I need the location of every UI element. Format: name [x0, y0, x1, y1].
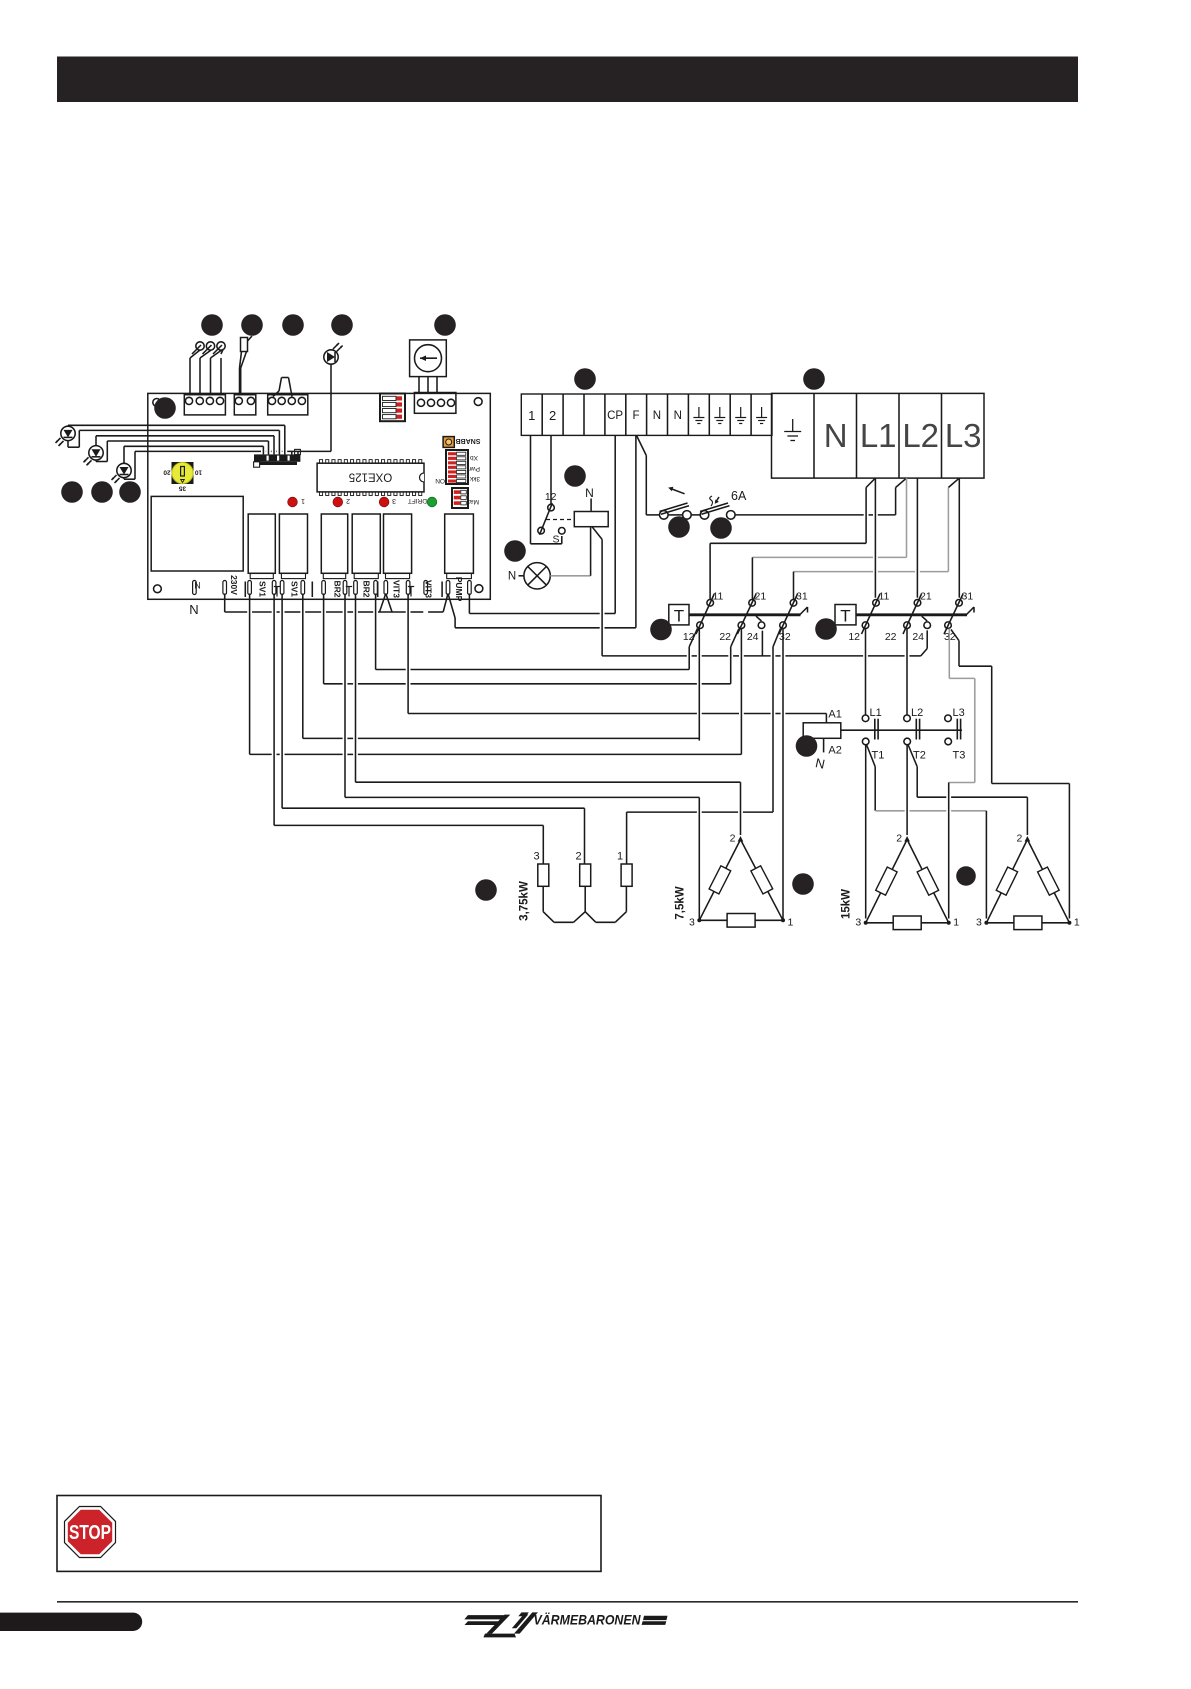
callout dot strip: [574, 368, 596, 390]
terminal block X4 (4 poles): [414, 393, 456, 414]
svg-text:N: N: [194, 580, 201, 590]
svg-text:OXE125: OXE125: [349, 471, 392, 483]
svg-text:SV1: SV1: [290, 581, 300, 597]
temperature probe above X2: [240, 336, 253, 395]
header black bar: [57, 57, 1078, 103]
LED D2 left: [84, 446, 104, 466]
warning box: [57, 1496, 601, 1572]
ribbon connector J1: [254, 449, 301, 467]
svg-text:L3: L3: [945, 417, 982, 454]
callout dot: [201, 314, 223, 336]
callout dot: [91, 481, 113, 503]
pin labels: [189, 575, 464, 617]
relay VIT3: [384, 514, 412, 573]
callout dot: [434, 314, 456, 336]
svg-text:2: 2: [1017, 833, 1023, 845]
thermostat 1 lower wires: [689, 629, 783, 921]
svg-text:11: 11: [879, 591, 890, 603]
svg-text:STOP: STOP: [69, 1522, 111, 1544]
contactor K1 poles: [841, 707, 966, 762]
svg-text:21: 21: [755, 591, 767, 603]
svg-text:230V: 230V: [229, 575, 239, 595]
svg-text:PUMP: PUMP: [454, 577, 464, 602]
IC U1 OXE125: [317, 460, 424, 496]
svg-text:1: 1: [528, 408, 535, 423]
wire pin VIT3b to 12 dogleg: [376, 594, 690, 670]
heater 7.5kW delta: [675, 833, 794, 929]
svg-text:2: 2: [896, 833, 902, 845]
svg-text:N: N: [508, 571, 516, 583]
wire terminal 1 to S: [531, 435, 562, 543]
STOP sign: [65, 1507, 116, 1558]
heater 15kW delta A: [841, 833, 960, 930]
svg-text:15kW: 15kW: [841, 889, 853, 919]
svg-text:F: F: [632, 410, 639, 422]
LED red 2: [333, 497, 343, 507]
sensor circles above X1: [192, 342, 225, 354]
DIP switch S4: [452, 488, 479, 508]
terminal block X2 (2 poles): [234, 395, 256, 415]
svg-text:12: 12: [545, 491, 557, 503]
SNABB trimmer: [443, 437, 480, 448]
earth symbols on strip: [693, 407, 767, 424]
contactor coil A1 A2: [803, 709, 842, 772]
svg-text:22: 22: [719, 631, 731, 643]
callout dot: [241, 314, 263, 336]
VIT3 pin legs: [380, 594, 393, 612]
VARMEBARONEN logo: [464, 1611, 667, 1637]
svg-text:32: 32: [779, 631, 791, 643]
rail CP to pump pin: [469, 594, 615, 614]
wire pin VIT3c to contactor A1: [408, 594, 826, 714]
svg-text:L2: L2: [902, 417, 939, 454]
heater 3.75kW resistor 2: [580, 864, 591, 886]
rotary selector knob: [410, 340, 447, 393]
svg-text:3kk: 3kk: [469, 475, 480, 482]
heater 3.75kW resistor 3: [538, 864, 549, 886]
callout dot 7.5kW: [792, 873, 814, 895]
callout dot: [61, 481, 83, 503]
wire F to pump pin: [455, 618, 636, 628]
rail 230V: [225, 594, 444, 613]
callout dot thermostat 1: [650, 619, 672, 641]
wire pin BR2b to 7.5kW node3: [345, 594, 699, 919]
callout dot thermostat 2: [815, 618, 837, 640]
callout dot main block: [803, 368, 825, 390]
sensor wires to X1: [190, 350, 223, 395]
wire pin SV1d to 12 straight: [303, 594, 700, 739]
svg-text:12: 12: [848, 631, 860, 643]
svg-text:N: N: [824, 417, 848, 454]
wire L2 feeds: [752, 478, 917, 599]
wire L1 feeds: [710, 478, 875, 599]
svg-text:A1: A1: [828, 709, 841, 721]
wire lanes from LEDs to connector J1: [68, 425, 331, 479]
svg-text:3: 3: [533, 851, 539, 863]
mounting hole bottom-left: [154, 585, 162, 593]
svg-text:2: 2: [575, 851, 581, 863]
svg-text:L1: L1: [860, 417, 897, 454]
pump pin legs: [443, 594, 455, 619]
svg-text:1: 1: [953, 917, 959, 929]
svg-text:L3: L3: [953, 707, 965, 719]
svg-text:21: 21: [920, 591, 932, 603]
svg-text:BR2: BR2: [361, 580, 371, 597]
thermostat T box 2: [835, 605, 974, 626]
svg-text:BR2: BR2: [333, 580, 343, 597]
svg-text:2: 2: [549, 408, 556, 423]
svg-text:1: 1: [301, 497, 305, 504]
callout dot breaker: [710, 517, 732, 539]
board pins: [193, 581, 472, 598]
callout dot switch: [564, 465, 586, 487]
svg-text:3,75kW: 3,75kW: [519, 881, 531, 921]
svg-text:SV1: SV1: [258, 581, 268, 597]
svg-text:VIT3: VIT3: [424, 580, 434, 598]
thermostat T box 1: [669, 605, 808, 626]
svg-text:11: 11: [713, 591, 724, 603]
svg-text:S: S: [552, 534, 559, 546]
relay coil K2: [574, 486, 608, 539]
door switch S1: [538, 491, 575, 546]
svg-text:24: 24: [747, 631, 759, 643]
transformer TR1: [151, 496, 243, 571]
signal lamp: [508, 528, 591, 590]
wire 32 to resistor 1: [627, 812, 773, 864]
svg-text:24: 24: [912, 631, 924, 643]
svg-text:Xb: Xb: [470, 454, 478, 461]
svg-text:N: N: [585, 486, 594, 500]
svg-text:3: 3: [689, 917, 695, 929]
callout dot: [119, 481, 141, 503]
wire terminal 2 to switch: [550, 435, 552, 504]
relay BR2 a: [321, 514, 347, 573]
wire pin SV1a to 22 straight: [250, 594, 742, 755]
svg-text:N: N: [653, 410, 661, 422]
svg-text:10: 10: [195, 469, 203, 476]
svg-text:T3: T3: [953, 750, 966, 762]
terminal block X1 (4 poles): [184, 395, 225, 415]
relay SV1 b: [279, 514, 307, 573]
mounting hole top-left: [153, 399, 161, 407]
heater 15kW delta B: [976, 833, 1080, 930]
svg-text:VÄRMEBARONEN: VÄRMEBARONEN: [534, 1611, 642, 1627]
contactor T wires to heaters: [866, 745, 1028, 919]
callout dot: [282, 314, 304, 336]
PCB board outline: [148, 393, 491, 599]
LED D1 left: [56, 426, 76, 446]
callout dot contactor coil: [796, 735, 818, 757]
svg-text:T1: T1: [872, 750, 885, 762]
wire F down: [636, 435, 646, 627]
svg-text:6A: 6A: [731, 489, 747, 503]
thermostat 1 contacts: [683, 591, 808, 644]
manual switch: [646, 456, 691, 520]
svg-text:T: T: [674, 607, 684, 626]
callout dot lamp: [504, 540, 526, 562]
svg-text:N: N: [674, 410, 682, 422]
wire pin BR2a to 22 dogleg: [324, 594, 731, 684]
svg-text:L2: L2: [911, 707, 923, 719]
callout dot 3.75kW: [475, 879, 497, 901]
svg-text:35: 35: [179, 485, 187, 492]
LED red 1: [288, 497, 298, 507]
svg-text:VIT3: VIT3: [392, 580, 402, 598]
wire coil to 24 terminals: [602, 539, 927, 656]
svg-text:2: 2: [346, 497, 350, 504]
svg-text:1: 1: [1074, 917, 1080, 929]
small terminal strip: [521, 394, 772, 435]
svg-text:7,5kW: 7,5kW: [675, 886, 687, 919]
heater 3.75kW resistor 1: [621, 864, 632, 886]
svg-text:1: 1: [788, 917, 794, 929]
relay BR2 b: [352, 514, 380, 573]
breaker 6A: [691, 489, 895, 519]
footer rule: [57, 1601, 1078, 1603]
wire CP down: [614, 435, 616, 613]
svg-text:DRIFT: DRIFT: [408, 497, 427, 504]
svg-text:T: T: [840, 607, 850, 626]
relay PUMP: [445, 514, 474, 573]
LED red 3: [379, 497, 389, 507]
svg-text:ON: ON: [435, 477, 445, 484]
mounting hole bottom-right: [475, 585, 483, 593]
wire pin BR2c to 7.5kW apex: [356, 594, 741, 836]
callout dot manual switch: [668, 516, 690, 538]
terminal block X3 (4 poles): [268, 395, 308, 415]
svg-text:Pwr: Pwr: [468, 465, 480, 472]
LED green DRIFT: [427, 497, 437, 507]
callout dot: [331, 314, 353, 336]
earth symbol main block: [784, 419, 801, 441]
svg-text:CP: CP: [607, 410, 623, 422]
room sensor above X3: [273, 378, 292, 397]
svg-text:Max: Max: [466, 498, 479, 505]
svg-text:1: 1: [617, 851, 623, 863]
LED D3 left: [112, 463, 132, 483]
potentiometer P1: [163, 462, 202, 492]
footer black tab: [0, 1613, 142, 1631]
DIP switch S3: [435, 450, 480, 484]
callout dot board corner: [154, 397, 176, 419]
svg-text:22: 22: [885, 631, 897, 643]
svg-text:L1: L1: [870, 707, 882, 719]
svg-text:31: 31: [962, 591, 974, 603]
svg-text:2: 2: [730, 833, 736, 845]
thermostat 2 contacts: [848, 591, 973, 644]
wire pin SV1c to resistor 2: [282, 594, 584, 865]
svg-text:3: 3: [855, 917, 861, 929]
svg-text:31: 31: [796, 591, 808, 603]
svg-text:SNABB: SNABB: [456, 437, 481, 444]
relay SV1 a: [248, 514, 275, 573]
heater 3.75kW star wiring: [519, 851, 627, 923]
mounting hole top-right: [474, 398, 482, 406]
wire L3 feeds: [794, 478, 960, 599]
DIP switch S2: [380, 394, 405, 422]
svg-text:A2: A2: [828, 745, 841, 757]
svg-text:20: 20: [163, 469, 171, 476]
LED D4 above board: [324, 343, 343, 451]
svg-text:3: 3: [392, 497, 396, 504]
svg-text:N: N: [189, 602, 198, 617]
wire pin SV1b to resistor 3: [274, 594, 543, 865]
thermostat 2 lower wires: [866, 629, 1070, 919]
main terminal block N L1 L2 L3: [772, 393, 985, 478]
svg-text:3: 3: [976, 917, 982, 929]
callout dot 15kW: [956, 866, 976, 886]
